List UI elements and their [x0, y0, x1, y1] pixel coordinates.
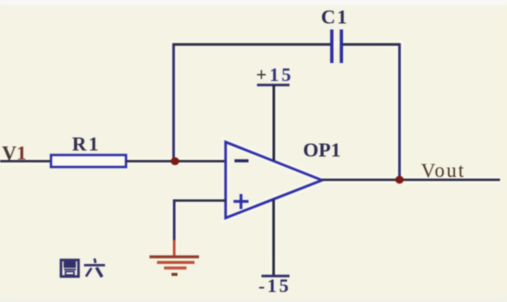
- top white band: [0, 0, 507, 5]
- label figure six (CJK drawn): [61, 259, 105, 278]
- wire output: [322, 179, 500, 181]
- resistor R1: [51, 155, 126, 167]
- wire feedback top left horizontal: [172, 43, 331, 46]
- node A junction dot inverting input: [171, 157, 180, 165]
- wire glow underlay: [0, 44, 500, 276]
- wire V1 input to R1: [0, 160, 51, 162]
- wire noninverting input down to ground: [173, 199, 176, 241]
- wire R1 to inverting input: [126, 160, 226, 162]
- capacitor C1: [332, 30, 342, 64]
- -15 supply bar: [262, 275, 290, 278]
- wire noninverting input horizontal: [173, 199, 226, 201]
- op-amp minus sign: [235, 159, 249, 162]
- ground stem red: [173, 240, 176, 257]
- svg-text:R1: R1: [72, 134, 100, 156]
- bottom edge band: [0, 298, 507, 302]
- svg-text:C1: C1: [321, 7, 348, 29]
- op-amp U1 triangle: [226, 142, 322, 218]
- svg-text:+15: +15: [256, 65, 294, 86]
- ground: [150, 257, 200, 275]
- +15 supply bar: [257, 84, 290, 87]
- wire C1 right to corner: [343, 43, 400, 46]
- svg-text:Vout: Vout: [421, 160, 466, 182]
- svg-text:V1: V1: [2, 143, 26, 165]
- svg-text:-15: -15: [259, 276, 292, 297]
- wire +15 to op-amp top: [272, 85, 275, 161]
- wire op-amp bottom to -15: [272, 200, 275, 276]
- wire feedback vertical left: [172, 44, 175, 161]
- node B junction dot output: [395, 176, 404, 184]
- svg-text:OP1: OP1: [303, 140, 341, 162]
- wire feedback vertical right down to output: [398, 43, 401, 180]
- op-amp plus sign: [234, 194, 249, 209]
